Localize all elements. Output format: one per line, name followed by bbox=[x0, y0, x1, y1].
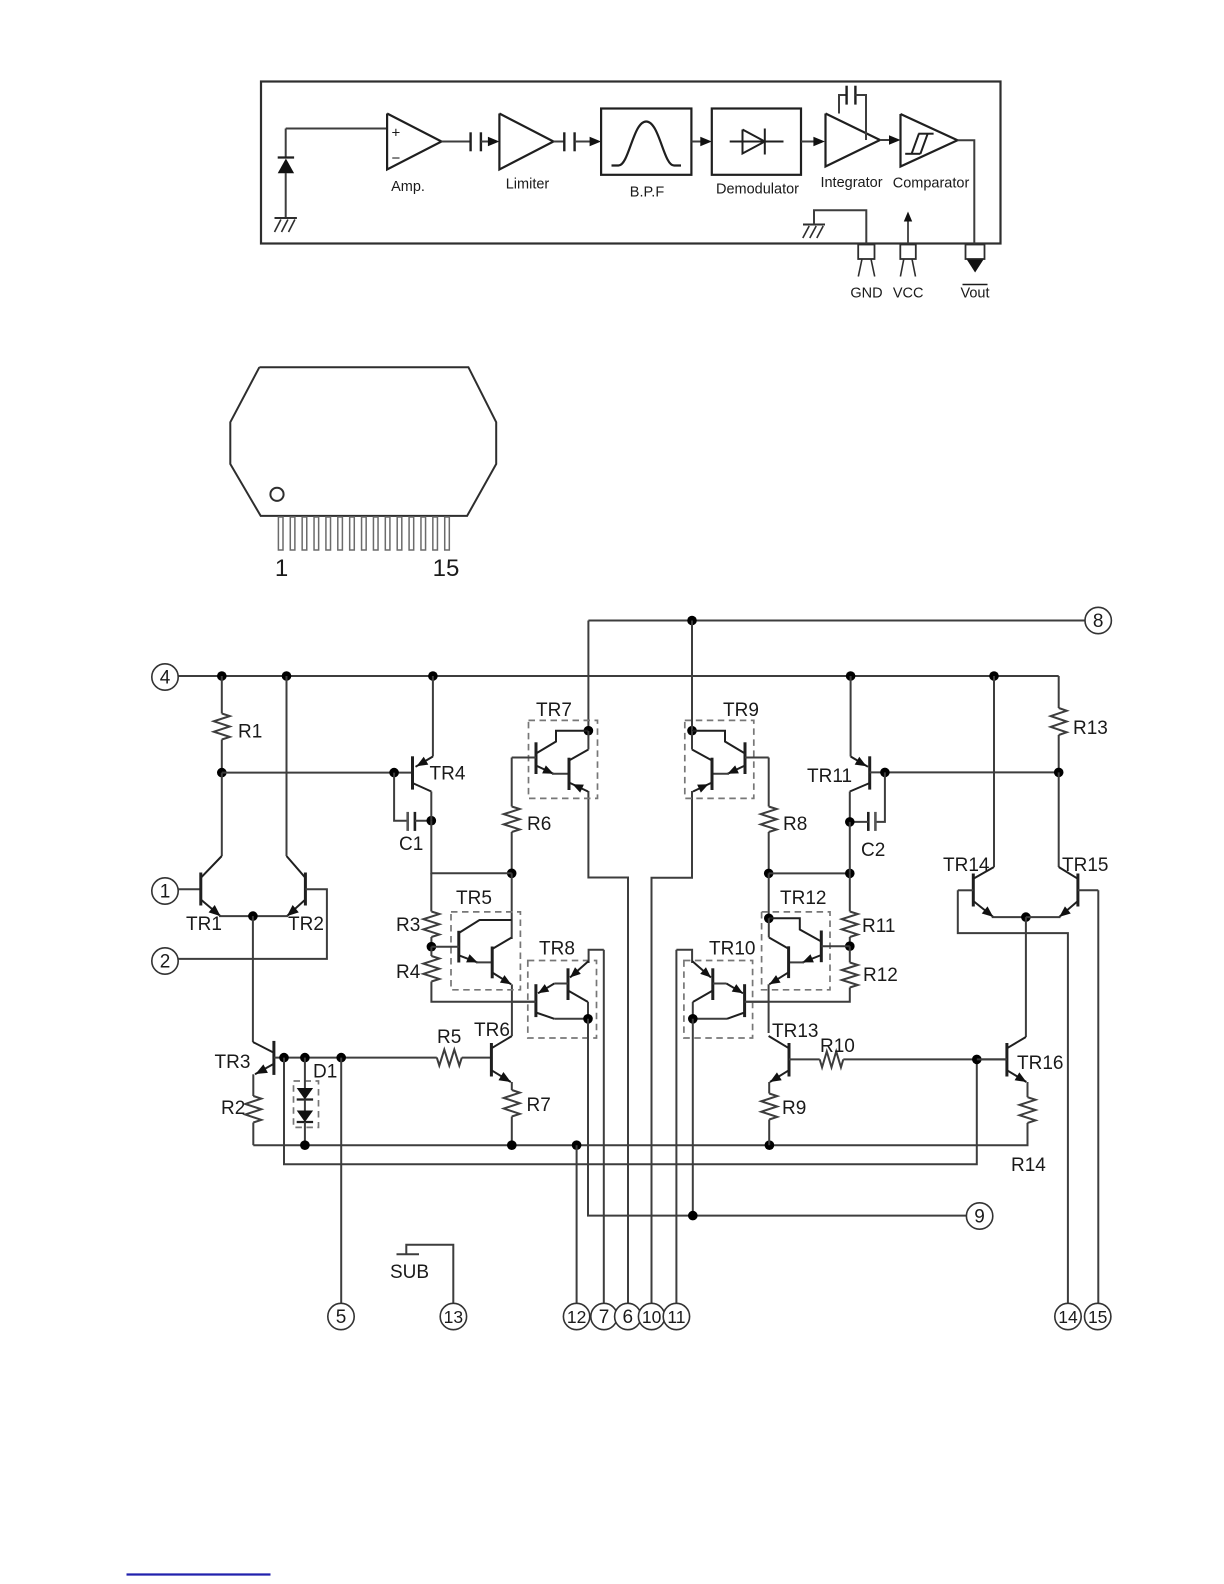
svg-text:15: 15 bbox=[1088, 1307, 1107, 1327]
VCC pin bbox=[907, 220, 909, 244]
pin 2 bbox=[152, 948, 178, 974]
capacitor C2 bbox=[874, 812, 877, 831]
package pins 1-15 bbox=[278, 517, 283, 550]
resistor R2 bbox=[245, 1096, 261, 1123]
node: ground/R7 bbox=[507, 1140, 517, 1150]
transistor pair TR5 (dashed box) bbox=[451, 912, 520, 990]
svg-text:1: 1 bbox=[275, 555, 288, 582]
resistor R6 bbox=[511, 758, 513, 807]
wire TR12 emitter to TR13 collector bbox=[768, 984, 770, 1033]
pin 4 bbox=[152, 664, 178, 690]
node: TR14/TR15 emitters bbox=[1021, 912, 1031, 922]
wire R5 to TR6 base bbox=[462, 1057, 492, 1059]
svg-text:4: 4 bbox=[160, 668, 171, 689]
pin 13 bbox=[440, 1303, 466, 1329]
wire C2 branch down bbox=[875, 772, 885, 822]
svg-text:9: 9 bbox=[974, 1207, 985, 1228]
wire TR3 base line (bias rail) bbox=[274, 1057, 437, 1059]
node: pin-9 junction bbox=[688, 1211, 698, 1221]
svg-text:B.P.F: B.P.F bbox=[630, 185, 665, 201]
transistor TR16 bbox=[1005, 1043, 1008, 1077]
svg-text:TR6: TR6 bbox=[474, 1020, 510, 1041]
node: TR7 collectors bbox=[584, 726, 594, 736]
wire R12 bottom to TR10 base bbox=[745, 988, 850, 1002]
svg-text:TR12: TR12 bbox=[780, 888, 826, 909]
wire demodulator to integrator bbox=[801, 141, 814, 143]
limiter amplifier bbox=[499, 114, 553, 170]
node: R11/R12 junction (TR12 base) bbox=[845, 941, 855, 951]
node: TR11 base / C2 branch bbox=[880, 768, 890, 778]
wire amp output bbox=[442, 141, 471, 143]
transistor pair TR7 (dashed box) bbox=[529, 720, 598, 798]
diode D1a bbox=[304, 1058, 306, 1088]
TR5 output transistor bbox=[491, 947, 494, 979]
svg-text:VCC: VCC bbox=[893, 286, 924, 302]
svg-text:2: 2 bbox=[160, 952, 171, 973]
node: R8 bottom bbox=[764, 869, 774, 879]
svg-text:R2: R2 bbox=[221, 1098, 245, 1119]
comparator with hysteresis bbox=[901, 114, 958, 167]
integrator amplifier bbox=[826, 114, 881, 167]
svg-text:R11: R11 bbox=[862, 916, 895, 937]
svg-text:TR1: TR1 bbox=[186, 914, 222, 935]
wire photodiode to amp bbox=[286, 128, 387, 130]
svg-text:TR13: TR13 bbox=[772, 1021, 818, 1042]
pin 7 bbox=[591, 1303, 617, 1329]
node: TR10 collectors bbox=[688, 1014, 698, 1024]
TR9 collector wiring bbox=[692, 731, 745, 754]
wire R8 column into TR12 bbox=[768, 873, 770, 918]
pin 12 bbox=[563, 1303, 589, 1329]
svg-text:Comparator: Comparator bbox=[893, 176, 970, 192]
wire TR1 emitter to common node bbox=[219, 915, 253, 917]
transistor TR11 bbox=[868, 756, 871, 789]
node: ground/pin12 bbox=[572, 1140, 582, 1150]
TR9 output transistor bbox=[711, 758, 714, 790]
node: C2 / TR11 collector bbox=[845, 817, 855, 827]
wire ground to GND pin bbox=[814, 210, 866, 243]
capacitor C1 bbox=[406, 812, 409, 831]
TR12 input transistor bbox=[820, 931, 823, 963]
diode pair D1 (dashed box) bbox=[294, 1081, 319, 1127]
demodulator block bbox=[712, 109, 801, 175]
svg-text:C2: C2 bbox=[861, 840, 885, 861]
transistor TR15 bbox=[1076, 874, 1079, 907]
node: TR8 collectors bbox=[583, 1014, 593, 1024]
GND internal ground symbol bbox=[803, 224, 825, 226]
wire pin-10 lead bbox=[652, 791, 693, 1303]
svg-text:R8: R8 bbox=[783, 814, 807, 835]
svg-text:R1: R1 bbox=[238, 722, 262, 743]
footer rule bbox=[127, 1573, 271, 1575]
svg-text:TR7: TR7 bbox=[536, 700, 572, 721]
wire pin-11 lead bbox=[675, 950, 677, 1304]
transistor TR2 bbox=[304, 873, 307, 906]
SUB terminal bbox=[397, 1253, 420, 1255]
integrator feedback capacitor bbox=[839, 95, 847, 114]
transistor TR6 bbox=[490, 1043, 493, 1077]
TR12 output transistor bbox=[787, 946, 790, 978]
wire TR5 emitter to TR6 collector bbox=[511, 983, 513, 986]
wire TR2 base to pin 2 bbox=[178, 889, 327, 959]
svg-text:−: − bbox=[392, 150, 401, 167]
svg-text:R5: R5 bbox=[437, 1027, 461, 1048]
node: TR1/TR2 emitters bbox=[248, 911, 258, 921]
V+ rail from pin 4 bbox=[178, 675, 1059, 677]
resistor R11 bbox=[849, 873, 851, 911]
resistor R8 bbox=[768, 758, 770, 807]
svg-text:7: 7 bbox=[599, 1307, 610, 1328]
node: rail junction TR2 collector bbox=[282, 671, 292, 681]
svg-text:TR11: TR11 bbox=[807, 766, 852, 787]
wire pin-7 lead bbox=[603, 950, 605, 1304]
transistor TR4 bbox=[411, 756, 414, 789]
wire integrator to comparator bbox=[880, 139, 890, 141]
pin 1 bbox=[152, 878, 178, 904]
pin 6 bbox=[615, 1303, 641, 1329]
wire TR15 base to pin 15 bbox=[1097, 890, 1099, 1303]
resistor R13 bbox=[1058, 676, 1060, 708]
wire TR11 base line bbox=[870, 771, 1059, 773]
transistor pair TR9 (dashed box) bbox=[685, 720, 754, 798]
TR7 input transistor bbox=[535, 742, 538, 774]
wire R1 node down to TR1 collector bbox=[221, 773, 223, 856]
coupling capacitor 2 bbox=[563, 132, 565, 151]
B.P.F block bbox=[601, 109, 691, 175]
svg-text:10: 10 bbox=[642, 1307, 662, 1327]
svg-text:SUB: SUB bbox=[390, 1262, 429, 1283]
svg-text:Vout: Vout bbox=[960, 286, 989, 302]
signal arrow 5 bbox=[889, 135, 901, 145]
svg-text:R7: R7 bbox=[527, 1095, 551, 1116]
node: rail junction R1 bbox=[217, 671, 227, 681]
resistor R10 bbox=[820, 1051, 844, 1067]
resistor R1 bbox=[221, 676, 223, 714]
wire R10 to TR16 base bbox=[843, 1058, 1007, 1060]
node: R6 bottom bbox=[507, 869, 517, 879]
wire C1 column to R6 node bbox=[431, 821, 511, 874]
node: TR12 collectors bbox=[764, 914, 774, 924]
coupling capacitor 1 bbox=[469, 132, 471, 151]
resistor R9 bbox=[761, 1094, 777, 1120]
svg-text:15: 15 bbox=[433, 555, 460, 582]
node: C1 / TR4 collector bbox=[427, 816, 437, 826]
wire limiter output bbox=[554, 141, 565, 143]
svg-text:8: 8 bbox=[1093, 611, 1104, 632]
svg-text:5: 5 bbox=[336, 1307, 347, 1328]
GND pin bbox=[858, 245, 874, 260]
TR10 output transistor bbox=[743, 984, 746, 1017]
wire R8 node to TR11 collector column bbox=[769, 872, 850, 874]
transistor pair TR10 (dashed box) bbox=[684, 961, 753, 1039]
IC package outline (15-pin SIP) bbox=[230, 367, 496, 516]
transistor TR3 bbox=[272, 1041, 275, 1075]
wire TR13 base line bbox=[789, 1058, 820, 1060]
wire pin-12 lead bbox=[576, 1145, 578, 1303]
svg-text:TR4: TR4 bbox=[430, 764, 466, 785]
resistor R12 bbox=[849, 946, 851, 962]
svg-text:C1: C1 bbox=[399, 834, 423, 855]
TR8 output transistor bbox=[534, 984, 537, 1017]
diode D1b bbox=[304, 1100, 306, 1111]
svg-text:13: 13 bbox=[444, 1307, 463, 1327]
svg-text:1: 1 bbox=[160, 882, 171, 903]
svg-text:D1: D1 bbox=[313, 1062, 337, 1083]
svg-text:TR16: TR16 bbox=[1017, 1053, 1063, 1074]
package index mark bbox=[270, 488, 283, 501]
svg-text:TR10: TR10 bbox=[709, 939, 755, 960]
pin 14 bbox=[1055, 1303, 1081, 1329]
ground (input) bbox=[275, 217, 297, 219]
pin 10 bbox=[638, 1303, 664, 1329]
wire ground rail bbox=[253, 1123, 1027, 1145]
Vout pin bbox=[966, 245, 985, 260]
node: TR3 base junction bbox=[279, 1053, 289, 1063]
op-amp Amp. bbox=[387, 114, 441, 170]
svg-text:R9: R9 bbox=[782, 1098, 806, 1119]
svg-text:11: 11 bbox=[667, 1307, 685, 1327]
svg-text:TR2: TR2 bbox=[288, 914, 324, 935]
node: rail junction TR14 collector bbox=[989, 671, 999, 681]
pin 9 bbox=[966, 1203, 992, 1229]
transistor TR14 bbox=[972, 874, 975, 907]
svg-text:Amp.: Amp. bbox=[391, 179, 425, 195]
TR12 collector wiring bbox=[769, 918, 822, 941]
signal arrow 1 bbox=[488, 137, 500, 147]
transistor TR1 bbox=[199, 873, 202, 906]
svg-text:14: 14 bbox=[1058, 1307, 1078, 1327]
pin-8 bus line bbox=[588, 620, 1085, 622]
node: TR11 collector column bbox=[845, 869, 855, 879]
svg-text:R13: R13 bbox=[1073, 718, 1108, 739]
transistor pair TR8 (dashed box) bbox=[528, 961, 597, 1039]
wire pin-5 lead bbox=[340, 1058, 342, 1304]
wire TR8 collector to pin-9 line bbox=[588, 1019, 966, 1216]
node: ground/D1 bbox=[300, 1140, 310, 1150]
wire R4 bottom to TR8 base bbox=[431, 982, 536, 1002]
pin 11 bbox=[663, 1303, 689, 1329]
TR9 input transistor bbox=[744, 742, 747, 774]
node: R13 bottom / TR15 collector bbox=[1054, 768, 1064, 778]
wire BPF to demodulator bbox=[691, 141, 700, 143]
svg-text:R14: R14 bbox=[1011, 1155, 1046, 1176]
svg-text:GND: GND bbox=[850, 286, 882, 302]
svg-text:Integrator: Integrator bbox=[820, 175, 882, 191]
svg-text:+: + bbox=[392, 125, 401, 142]
resistor R5 bbox=[437, 1050, 462, 1066]
signal arrow 3 bbox=[700, 137, 712, 147]
svg-text:R3: R3 bbox=[396, 915, 420, 936]
TR10 emitter hook to pin 11 bbox=[676, 950, 692, 963]
TR8 input transistor bbox=[567, 968, 570, 1000]
wire C1 branch down bbox=[394, 773, 408, 821]
transistor pair TR12 (dashed box) bbox=[762, 912, 830, 990]
svg-text:R4: R4 bbox=[396, 962, 421, 983]
photodiode D (input) bbox=[285, 129, 287, 158]
svg-text:TR8: TR8 bbox=[539, 939, 575, 960]
wire TR14/15 emitters to TR16 collector bbox=[1025, 917, 1027, 1037]
wire bias line TR3 to TR16 bbox=[284, 1058, 977, 1165]
wire R6 node into TR5 bbox=[511, 873, 513, 939]
svg-text:TR5: TR5 bbox=[456, 888, 492, 909]
signal arrow 4 bbox=[813, 137, 825, 147]
pin 8 bbox=[1085, 607, 1111, 633]
node: TR16 base junction bbox=[972, 1055, 982, 1065]
svg-text:TR14: TR14 bbox=[943, 855, 990, 876]
svg-text:R6: R6 bbox=[527, 814, 551, 835]
pin 15 bbox=[1085, 1303, 1111, 1329]
svg-text:TR9: TR9 bbox=[723, 700, 759, 721]
svg-text:Demodulator: Demodulator bbox=[716, 182, 799, 198]
signal arrow 2 bbox=[590, 137, 602, 147]
TR8 emitter hook to pin 7 bbox=[589, 950, 604, 963]
wire TR14 emitter to common node bbox=[992, 916, 1026, 918]
node: rail junction TR4 emitter bbox=[428, 671, 438, 681]
pin 5 bbox=[328, 1303, 354, 1329]
transistor TR13 bbox=[788, 1043, 791, 1077]
node: R1 bottom / TR4 base line bbox=[217, 768, 227, 778]
node: ground/R9 bbox=[765, 1140, 775, 1150]
TR7 collector wiring bbox=[536, 731, 588, 754]
node: pin-5 junction bbox=[336, 1053, 346, 1063]
wire comparator output to Vout bbox=[958, 140, 975, 243]
svg-text:12: 12 bbox=[567, 1307, 586, 1327]
TR7 output transistor bbox=[568, 758, 571, 790]
demodulator diode bbox=[730, 141, 784, 143]
svg-text:Limiter: Limiter bbox=[506, 177, 550, 193]
svg-text:6: 6 bbox=[623, 1307, 634, 1328]
resistor R4 bbox=[430, 947, 432, 956]
node: R3/R4 junction (TR5 base) bbox=[427, 942, 437, 952]
wire TR11 collector column down bbox=[849, 822, 851, 874]
resistor R14 bbox=[1020, 1097, 1036, 1123]
TR5 input transistor bbox=[457, 931, 460, 963]
node: TR9 collectors bbox=[687, 726, 697, 736]
wire pin-6 lead bbox=[588, 791, 628, 1303]
block diagram frame bbox=[261, 82, 1001, 244]
svg-text:R12: R12 bbox=[863, 965, 898, 986]
node: TR4 base / C1 branch bbox=[389, 768, 399, 778]
node: pin-8 line junction TR9 bbox=[687, 616, 697, 626]
wire TR14 base to pin 14 bbox=[958, 890, 1068, 1303]
resistor R7 bbox=[504, 1090, 520, 1117]
wire TR4 base line bbox=[222, 772, 413, 774]
node: D1 top junction bbox=[300, 1053, 310, 1063]
svg-text:TR15: TR15 bbox=[1062, 855, 1108, 876]
TR10 input transistor bbox=[711, 968, 714, 1000]
node: rail junction TR11 emitter bbox=[846, 671, 856, 681]
svg-text:R10: R10 bbox=[820, 1036, 855, 1057]
svg-text:TR3: TR3 bbox=[215, 1052, 251, 1073]
resistor R3 bbox=[423, 912, 439, 938]
wire TR10 collector down to pin-9 line bbox=[692, 1019, 694, 1216]
wire common emitters down to TR3 bbox=[252, 916, 254, 1042]
